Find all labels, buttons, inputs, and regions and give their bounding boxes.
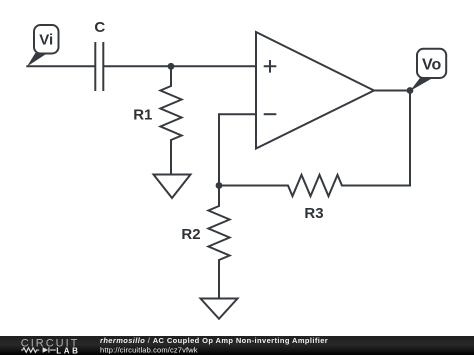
- svg-text:rhermosillo / AC Coupled Op Am: rhermosillo / AC Coupled Op Amp Non-inve…: [100, 336, 328, 345]
- svg-text:C: C: [94, 19, 105, 36]
- svg-text:Vi: Vi: [39, 32, 53, 49]
- svg-text:R2: R2: [181, 226, 200, 243]
- svg-text:Vo: Vo: [422, 56, 441, 73]
- svg-text:R3: R3: [304, 205, 323, 222]
- svg-text:http://circuitlab.com/cz7vfwk: http://circuitlab.com/cz7vfwk: [100, 345, 198, 354]
- svg-text:LAB: LAB: [56, 347, 80, 355]
- svg-text:R1: R1: [133, 106, 152, 123]
